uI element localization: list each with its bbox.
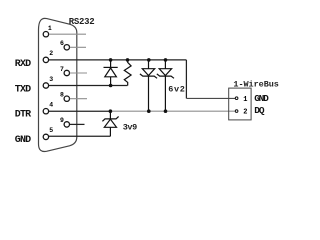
zener diode Z3 3v9 xyxy=(102,111,118,136)
svg-text:GND: GND xyxy=(254,93,269,104)
wire pin 1 stub xyxy=(49,33,86,35)
svg-text:2: 2 xyxy=(243,109,247,117)
svg-text:DTR: DTR xyxy=(15,109,31,120)
node junction dot TXD/D1 xyxy=(109,84,113,88)
wire GND row pin5 to zener Z3 xyxy=(49,135,111,137)
pin 9 xyxy=(64,122,69,127)
node junction dot RXD/D1 xyxy=(109,58,113,62)
svg-text:1-WireBus: 1-WireBus xyxy=(233,79,279,89)
svg-text:3v9: 3v9 xyxy=(123,122,138,132)
svg-text:3: 3 xyxy=(49,76,53,83)
svg-text:1: 1 xyxy=(48,25,52,32)
pin 8 xyxy=(64,96,69,101)
svg-text:5: 5 xyxy=(49,127,53,134)
svg-text:8: 8 xyxy=(60,92,64,99)
diode D1 xyxy=(104,60,118,86)
node junction dot RXD/R1 xyxy=(126,58,130,62)
pin 4 (DTR) xyxy=(43,109,48,114)
node junction dot RXD/Z2 xyxy=(164,58,168,62)
wire DQ row zener Z3 to 1-wire pin2 xyxy=(110,110,235,112)
J2 pin 1 xyxy=(235,97,238,100)
pin 2 (RXD) xyxy=(43,57,48,62)
svg-text:DQ: DQ xyxy=(254,105,265,116)
pin 5 (GND) xyxy=(43,134,48,139)
wire corner RXD down xyxy=(185,60,187,99)
wire pin 6 stub xyxy=(70,46,86,48)
pin 1 xyxy=(43,32,48,37)
svg-text:RS232: RS232 xyxy=(69,17,95,27)
wire DTR row pin4 to zener Z3 xyxy=(49,110,111,112)
svg-text:1: 1 xyxy=(243,96,247,104)
node junction dot DTR/Z3 xyxy=(109,109,113,113)
wire pin 8 stub xyxy=(70,98,87,100)
pin 7 xyxy=(64,70,69,75)
node junction dot RXD/Z1 xyxy=(147,58,151,62)
zener diode Z1 6v2 xyxy=(140,60,157,111)
wire pin 9 stub xyxy=(70,123,85,125)
wire RXD row pin2 to corner xyxy=(49,59,187,61)
pin 3 (TXD) xyxy=(43,83,48,88)
pin 6 xyxy=(64,45,69,50)
svg-text:TXD: TXD xyxy=(15,85,31,96)
svg-text:7: 7 xyxy=(60,66,64,73)
resistor R1 xyxy=(124,60,131,86)
J2 pin 2 xyxy=(235,110,238,113)
svg-text:6v2: 6v2 xyxy=(168,85,185,95)
svg-text:4: 4 xyxy=(49,102,53,109)
connector J1 RS232 DB9 body xyxy=(39,18,77,151)
svg-text:6: 6 xyxy=(60,40,64,47)
svg-text:9: 9 xyxy=(60,117,64,124)
zener diode Z2 6v2 xyxy=(157,60,174,111)
wire to 1-wire pin 1 xyxy=(186,97,235,99)
svg-text:GND: GND xyxy=(15,135,31,146)
svg-text:RXD: RXD xyxy=(15,59,31,70)
wire pin 7 stub xyxy=(70,72,87,74)
wire TXD row pin3 to resistor xyxy=(49,85,128,87)
svg-text:2: 2 xyxy=(49,50,53,57)
node junction dot DTR/Z1 xyxy=(147,109,151,113)
connector J2 1-WireBus body xyxy=(229,88,251,120)
node junction dot DTR/Z2 xyxy=(164,109,168,113)
